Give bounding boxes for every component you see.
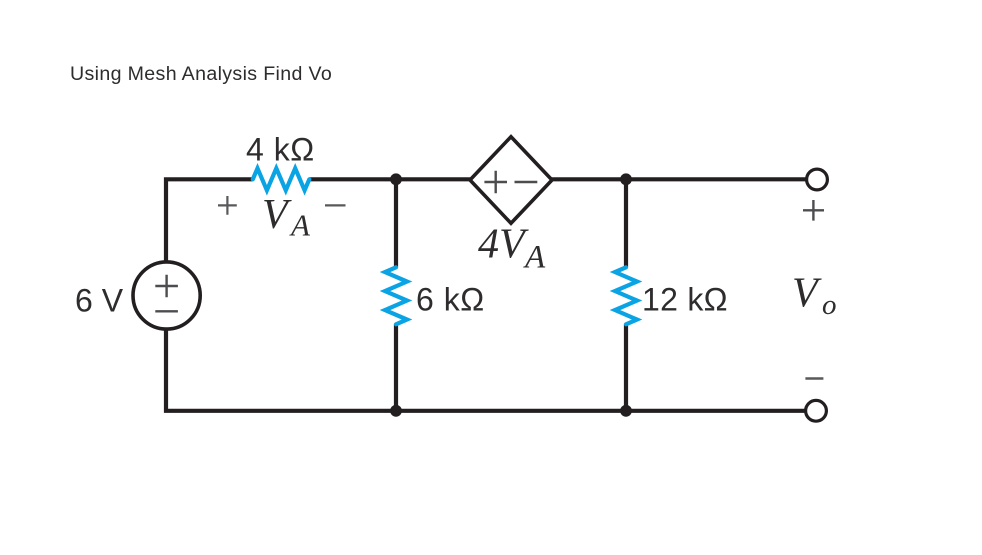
svg-text:V: V <box>792 270 822 316</box>
wire top-middle from 4k resistor to dependent source <box>309 177 471 181</box>
label Vo minus sign <box>805 377 823 380</box>
dependent source U1 diamond <box>470 137 552 224</box>
voltage source V1 minus sign <box>155 310 178 312</box>
wire 6k bottom branch <box>394 324 398 411</box>
resistor R2 6k zigzag <box>385 267 407 324</box>
label VA minus sign <box>325 204 346 206</box>
svg-text:V: V <box>262 192 292 238</box>
wire 12k bottom branch <box>624 324 628 411</box>
wire bottom-left from source to node C <box>166 329 396 411</box>
resistor R3 12k zigzag <box>615 267 637 324</box>
dependent source U1 minus sign <box>515 181 538 183</box>
node B junction dot <box>620 173 632 185</box>
voltage source V1 6V circle <box>133 262 200 329</box>
wire top-right from dependent source to output terminal <box>551 177 807 181</box>
label VA plus sign <box>218 196 237 215</box>
node A junction dot <box>390 173 402 185</box>
output terminal top circle <box>807 169 828 190</box>
svg-text:6 kΩ: 6 kΩ <box>416 281 485 317</box>
wire top-left from source to 4k resistor <box>166 179 253 262</box>
voltage source V1 plus sign <box>155 275 178 298</box>
svg-text:4 kΩ: 4 kΩ <box>246 132 315 168</box>
node C junction dot <box>390 405 402 417</box>
wire bottom-middle node C to node D <box>396 409 626 413</box>
resistor R1 4k zigzag <box>253 168 309 190</box>
svg-text:12 kΩ: 12 kΩ <box>642 281 728 317</box>
svg-text:4V: 4V <box>478 222 529 268</box>
svg-text:Using Mesh Analysis Find Vo: Using Mesh Analysis Find Vo <box>70 63 332 85</box>
dependent source U1 plus sign <box>484 171 507 194</box>
output terminal bottom circle <box>806 400 827 421</box>
label Vo plus sign <box>803 200 824 221</box>
svg-text:A: A <box>289 208 311 243</box>
svg-text:6 V: 6 V <box>75 282 124 318</box>
svg-text:o: o <box>822 289 837 321</box>
wire bottom-right node D to output terminal <box>626 409 806 413</box>
node D junction dot <box>620 405 632 417</box>
svg-text:A: A <box>523 240 546 276</box>
wire 12k top branch <box>624 179 628 267</box>
wire 6k top branch <box>394 179 398 267</box>
